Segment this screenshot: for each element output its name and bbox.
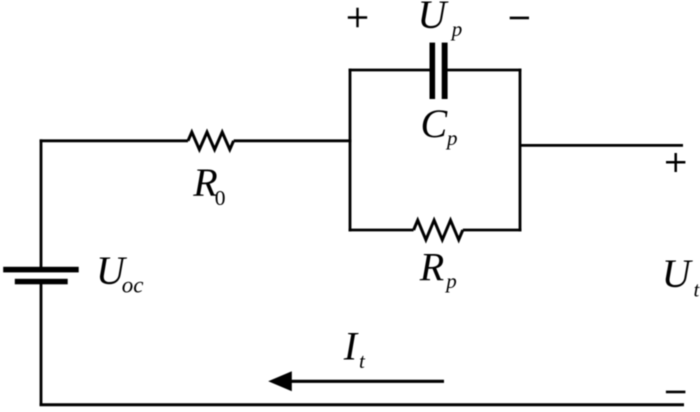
- current arrow It shaft: [287, 380, 444, 383]
- wire: box top edge left of capacitor: [349, 69, 431, 72]
- svg-text:U: U: [662, 251, 694, 296]
- wire: box bottom edge right of Rp: [463, 229, 522, 232]
- svg-text:0: 0: [215, 186, 226, 210]
- capacitor Cp left plate: [430, 43, 436, 99]
- wire: from R0 to parallel box left: [234, 139, 352, 142]
- wire: box left vertical: [349, 69, 352, 232]
- wire: left vertical from battery to bottom wire: [40, 284, 43, 406]
- battery Uoc top plate: [3, 267, 79, 273]
- svg-text:C: C: [421, 101, 449, 146]
- svg-text:I: I: [343, 324, 359, 369]
- plus sign top (Up polarity): [348, 8, 367, 27]
- svg-text:p: p: [445, 126, 458, 150]
- minus sign bottom right (Ut polarity): [666, 391, 686, 394]
- svg-text:oc: oc: [122, 273, 144, 298]
- wire: box right vertical: [519, 69, 522, 232]
- svg-text:t: t: [359, 349, 366, 373]
- battery Uoc bottom plate: [15, 279, 68, 285]
- capacitor Cp right plate: [442, 43, 448, 99]
- svg-text:p: p: [450, 17, 463, 41]
- wire: main horizontal from left vertical to resistor R0: [40, 139, 188, 142]
- wire: box top edge right of capacitor: [447, 69, 522, 72]
- resistor Rp zigzag: [414, 220, 463, 240]
- current arrow It head: [268, 371, 292, 391]
- minus sign top (Up polarity): [510, 17, 529, 20]
- resistor R0 zigzag: [188, 132, 234, 149]
- svg-text:U: U: [418, 0, 450, 37]
- wire: bottom return wire: [40, 403, 685, 406]
- svg-text:p: p: [444, 269, 457, 293]
- svg-text:R: R: [419, 245, 444, 290]
- svg-text:t: t: [694, 278, 700, 302]
- wire: left vertical from main node down to battery: [40, 139, 43, 267]
- plus sign right (Ut polarity): [666, 153, 685, 172]
- wire: box bottom edge left of Rp: [349, 229, 414, 232]
- wire: output wire from box right to + terminal: [520, 144, 683, 147]
